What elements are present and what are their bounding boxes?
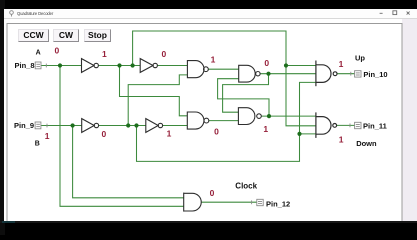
node junction notB at x136.5 [134,123,138,127]
svg-text:Clock: Clock [235,182,257,191]
minimize button [380,12,383,14]
node junction notB at x128.2 [126,123,130,127]
svg-text:0: 0 [214,126,219,136]
svg-text:1: 1 [102,49,107,59]
inverter U2 [140,59,157,73]
wire net A branch down to clock AND gate input [60,66,184,207]
inverter U8 [146,119,163,133]
wire net A: Pin_8 to inverter U1 [41,65,82,67]
NAND3 U10 Down gate with input bar [316,112,337,137]
svg-text:0: 0 [210,188,215,198]
svg-text:Pin_12: Pin_12 [266,200,290,209]
wire NAND U6 output to Down gate input 1 [261,115,316,117]
inverter U1 [82,59,99,73]
wire inverter U1 output to inverter U2 [98,65,140,67]
maximize button [393,11,397,15]
right window background strip [402,19,417,221]
node junction U6 output [267,114,271,118]
wire clock AND output to Pin_12 [201,201,257,203]
button Stop [84,29,111,42]
bottom letterbox noise strip [0,221,417,224]
NAND U3 [187,61,208,78]
svg-text:Pin_8: Pin_8 [15,61,35,70]
node junction notB at (299.5,133.9) [297,132,301,136]
node junction net B at x72.6 [71,123,75,127]
output pin Pin_11 connector [350,122,361,128]
input pin Pin_9 connector [35,122,47,129]
wire inverter U8 output to NAND U5 bottom input [163,125,188,127]
wire net B branch down to clock AND gate input [73,126,184,198]
wire notA cross-route down to NAND U5 top input [120,66,188,116]
left video letterbox bar [0,0,5,235]
NAND U5 [187,112,209,129]
node junction U4 output [266,72,270,76]
svg-text:1: 1 [339,134,344,144]
svg-text:B: B [35,141,40,148]
wire notA branch into Up gate input 1 [286,65,316,67]
wire notA top route to Up gate input 1 and Down gate input 2 [133,31,316,126]
svg-text:A: A [36,50,41,57]
node junction notA at x132.6 [131,63,135,67]
node junction notA at (286,65.5) [284,63,288,67]
svg-text:0: 0 [162,49,167,59]
wire NAND U4 output feedback to NAND U6 top input [223,74,269,113]
wire notB branch into Down gate input 3 [300,133,316,135]
window title bar [4,9,417,19]
svg-text:1: 1 [211,55,216,65]
svg-text:0: 0 [55,46,60,56]
NAND3 U9 Up gate with input bar [316,61,337,87]
svg-text:Down: Down [356,139,377,148]
input pin Pin_8 connector [35,62,46,69]
wire Up gate output to Pin_10 [337,73,355,75]
AND U11 clock gate [184,193,202,212]
wire notB bottom route to Up gate input 3 and Down gate input 3 [137,82,316,161]
svg-text:0: 0 [264,58,269,68]
node junction notA at x119.5 [117,63,121,67]
NAND U4 [239,65,260,82]
svg-text:1: 1 [45,131,50,141]
svg-text:Up: Up [355,54,365,63]
output pin Pin_10 connector [351,71,361,77]
wire NAND U4 output to Up gate input 2 [260,73,316,75]
svg-text:1: 1 [167,128,172,138]
svg-text:1: 1 [339,59,344,69]
svg-text:Pin_9: Pin_9 [14,121,34,130]
canvas border [7,24,402,221]
wire NAND U6 output feedback to NAND U4 bottom input [218,79,269,116]
title bar app icon [10,11,14,17]
output pin Pin_12 connector [252,199,264,205]
wire inverter U7 output to inverter U8 [99,125,146,127]
svg-text:Pin_11: Pin_11 [363,122,387,131]
svg-text:0: 0 [102,129,107,139]
wire inverter U2 output to NAND U3 top input [157,65,187,67]
svg-text:Pin_10: Pin_10 [363,70,387,79]
inverter U7 [82,119,99,133]
close button [407,12,410,15]
button CW [53,29,79,42]
svg-text:1: 1 [263,124,268,134]
wire notB cross-route up to NAND U3 bottom input [128,75,187,126]
wire NAND U5 output to NAND U6 bottom input [209,120,239,122]
button CCW [18,29,49,42]
NAND U6 [238,108,261,125]
wire net B: Pin_9 to inverter U7 [41,125,82,127]
wire NAND U3 output to NAND U4 top input [208,68,238,70]
wire Down gate output to Pin_11 [337,124,355,126]
node junction net A at x60 [58,63,62,67]
